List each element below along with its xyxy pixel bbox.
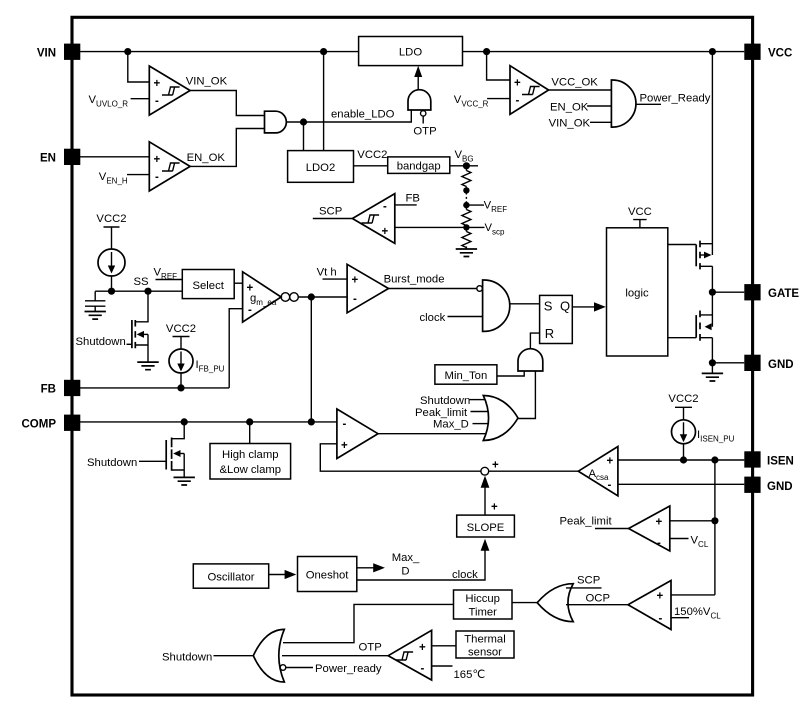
svg-text:+: +	[154, 154, 161, 166]
ground (Q4 source)	[174, 477, 195, 485]
transistor Q4 body arrow	[173, 450, 180, 457]
comparator U3 SCP	[352, 194, 394, 244]
svg-text:+: +	[154, 78, 161, 90]
svg-text:Max_: Max_	[392, 552, 420, 564]
wire U10 OCP output	[566, 604, 628, 606]
pin VCC	[744, 44, 760, 60]
comparator U11 OTP	[388, 630, 431, 680]
svg-text:S: S	[544, 299, 553, 314]
wire Power_ready to bubble	[286, 667, 313, 669]
wire U9 Peak_limit output	[595, 528, 629, 530]
comparator U2 EN_OK	[149, 142, 190, 191]
wire gm output node	[298, 296, 347, 298]
pin COMP	[64, 415, 80, 431]
svg-text:165℃: 165℃	[454, 669, 486, 681]
svg-text:OTP: OTP	[413, 126, 436, 138]
block bandgap	[388, 157, 450, 174]
wire FB rail	[80, 387, 229, 389]
svg-text:bandgap: bandgap	[397, 161, 441, 173]
transistor Q1 (gate driver high side) gate lead	[668, 244, 696, 246]
svg-text:LDO: LDO	[399, 47, 422, 59]
svg-text:sensor: sensor	[468, 647, 502, 659]
junction SS rail below I1	[108, 288, 115, 295]
svg-text:LDO2: LDO2	[306, 162, 336, 174]
wire VREF tap	[466, 204, 484, 206]
svg-text:OCP: OCP	[586, 593, 610, 605]
wire VVCC_R to U4 - input	[487, 98, 510, 100]
comparator U7 PWM	[337, 409, 378, 459]
summing node circle	[481, 467, 489, 475]
ground (divider)	[456, 249, 477, 257]
pin ISEN	[744, 451, 760, 467]
wire SCP to OR2	[566, 587, 602, 589]
wire Select to gm + input	[234, 282, 242, 284]
svg-text:+: +	[341, 440, 348, 452]
svg-text:clock: clock	[420, 312, 446, 324]
junction ISEN rail (limit comparators)	[711, 456, 718, 463]
wire Power_Ready output	[636, 103, 661, 105]
svg-text:Shutdown: Shutdown	[162, 652, 212, 664]
transistor Q1 drain lead	[700, 243, 712, 245]
bubble on NAND input	[477, 286, 483, 292]
junction COMP rail (clamp)	[246, 418, 253, 425]
svg-text:GND: GND	[768, 359, 794, 371]
svg-text:Max_D: Max_D	[433, 419, 469, 431]
comparator U1 VIN_OK	[149, 66, 190, 115]
svg-text:ISEN: ISEN	[767, 456, 794, 468]
block Min_Ton	[435, 365, 497, 384]
svg-text:High clamp: High clamp	[222, 449, 279, 461]
svg-text:clock: clock	[452, 569, 478, 581]
node Vscp junction	[463, 224, 469, 230]
comparator U4 VCC_OK	[510, 66, 549, 115]
svg-text:+: +	[514, 78, 521, 90]
svg-text:EN_OK: EN_OK	[550, 102, 589, 114]
svg-text:OTP: OTP	[359, 642, 382, 654]
wire Acsa output to summing node	[489, 470, 579, 472]
wire EN_OK to AND3	[587, 105, 611, 107]
svg-text:Select: Select	[192, 280, 224, 292]
wire ISEN rail	[618, 459, 744, 461]
block High clamp / Low clamp	[210, 444, 291, 480]
wire OR2 output to Hiccup Timer	[512, 602, 537, 604]
latch U6 SR	[540, 295, 573, 343]
wire Vscp tap	[466, 226, 484, 228]
transistor Q2 channel dashes	[699, 311, 701, 341]
pin VIN	[64, 44, 80, 60]
AND gate AND1	[265, 111, 287, 133]
svg-text:Burst_mode: Burst_mode	[384, 274, 445, 286]
resistor R1 (divider top)	[462, 166, 471, 191]
svg-text:FB: FB	[41, 384, 56, 396]
wire VIN rail	[80, 51, 359, 53]
wire U11 output to OR3	[282, 655, 388, 657]
junction sense vertical (peak limit)	[711, 517, 718, 524]
gm output circle pair	[281, 293, 290, 302]
wire VIN rail down to LDO2	[323, 52, 325, 151]
svg-text:VIN_OK: VIN_OK	[186, 75, 228, 87]
wire 150%VCL to U10 - input	[671, 617, 689, 619]
junction COMP rail (Q4)	[181, 418, 188, 425]
svg-text:EN: EN	[40, 153, 56, 165]
svg-text:VCC2: VCC2	[166, 323, 196, 335]
transistor Q3 channel dashes	[134, 320, 136, 348]
wire VCC to U4 + input	[487, 52, 510, 80]
svg-text:&Low clamp: &Low clamp	[220, 464, 282, 476]
wire FB rail up to gm - input	[229, 309, 242, 388]
hysteresis symbol U1	[162, 87, 180, 95]
wire Thermal sensor to U11 + input	[432, 645, 456, 647]
hysteresis symbol U4	[522, 87, 540, 95]
svg-text:FB: FB	[406, 193, 420, 205]
OR gate OR2 (fault)	[537, 584, 573, 622]
svg-text:-: -	[353, 294, 357, 306]
svg-text:+: +	[352, 275, 359, 287]
transistor Q3 (SS discharge) drain lead	[136, 291, 149, 322]
wire I1 to SS rail	[111, 276, 113, 291]
wire U7 output to OR1	[378, 433, 486, 435]
svg-text:SLOPE: SLOPE	[467, 522, 505, 534]
svg-text:-: -	[421, 663, 425, 675]
svg-text:COMP: COMP	[22, 419, 57, 431]
current source I2 IFB_PU	[169, 349, 193, 373]
junction COMP rail (gm node)	[308, 418, 315, 425]
junction below R1	[463, 187, 469, 193]
wire Shutdown to OR1	[470, 399, 486, 401]
bubble on OTP input of AND2	[421, 111, 426, 116]
svg-text:+: +	[656, 517, 663, 529]
node SS junction	[144, 288, 151, 295]
transistor Q2 body arrow	[705, 323, 712, 330]
wire AND5 output to R input	[530, 333, 539, 349]
svg-text:Thermal: Thermal	[464, 634, 505, 646]
junction VCC rail (to gate driver)	[709, 48, 716, 55]
transistor Q1 body arrow	[700, 254, 705, 256]
svg-text:+: +	[491, 502, 498, 514]
wire VCL to U9 - input	[670, 538, 689, 540]
AND gate AND3 (Power_Ready)	[611, 80, 636, 127]
svg-text:Shutdown: Shutdown	[87, 457, 137, 469]
wire Burst_mode to NAND bubble	[389, 288, 477, 290]
wire VIN to U1 + input	[128, 52, 150, 82]
wire Min_Ton to AND5	[497, 371, 524, 376]
node VREF junction	[463, 202, 469, 208]
wire EN pin to U2 + input	[80, 156, 149, 158]
transistor Q3 gate bar	[131, 320, 133, 348]
svg-text:Timer: Timer	[468, 607, 497, 619]
bubble on OR3 Power_ready input	[280, 665, 286, 671]
wire SLOPE arrow to summing node	[484, 487, 486, 515]
OR gate OR1 (reset sources)	[483, 396, 518, 441]
svg-text:-: -	[248, 305, 252, 317]
svg-text:VIN: VIN	[37, 48, 56, 60]
wire FB to U3 - input	[395, 204, 417, 206]
transistor Q3 source lead	[135, 334, 148, 362]
svg-text:SCP: SCP	[319, 206, 342, 218]
hysteresis symbol U2	[162, 163, 180, 171]
pin GATE	[744, 284, 760, 300]
svg-text:+: +	[607, 456, 614, 468]
wire dotted divider continuation	[465, 193, 467, 204]
comparator U5 Burst	[347, 264, 388, 313]
svg-text:-: -	[155, 96, 159, 108]
svg-text:VCC2: VCC2	[357, 149, 387, 161]
wire gm node down to COMP rail	[310, 297, 312, 422]
resistor R2 (divider middle)	[462, 205, 471, 227]
transistor Q4 (COMP discharge) drain lead	[172, 422, 184, 439]
transistor Q4 channel dashes	[171, 438, 173, 471]
wire SS rail	[95, 290, 182, 292]
wire AND2 output arrow to LDO	[417, 72, 419, 90]
svg-text:Oscillator: Oscillator	[207, 572, 254, 584]
pin GND (signal)	[744, 477, 760, 493]
svg-text:VCC: VCC	[768, 48, 792, 60]
hysteresis symbol U11	[396, 652, 414, 660]
svg-text:EN_OK: EN_OK	[187, 152, 226, 164]
transistor Q2 gate bar	[695, 315, 697, 338]
pin EN	[64, 149, 80, 165]
capacitor C1 (soft-start)	[85, 291, 105, 311]
current source I1 (soft-start)	[98, 249, 125, 276]
wire AND4 output to S input	[510, 303, 540, 305]
svg-text:+: +	[492, 460, 499, 472]
svg-text:logic: logic	[625, 288, 649, 300]
node VBG junction	[463, 162, 470, 169]
wire enable node down to LDO2	[303, 122, 305, 151]
svg-text:+: +	[657, 591, 664, 603]
wire Q output arrow to logic	[572, 306, 595, 308]
wire Shutdown to Q3 gate	[127, 343, 132, 345]
wire I3 to ISEN rail	[683, 444, 685, 460]
block SLOPE	[457, 515, 515, 537]
comparator U10 OCP	[628, 581, 671, 630]
wire bandgap to VBG node	[450, 165, 478, 167]
wire VCC rail down to Q1 drain	[711, 52, 713, 255]
svg-text:Peak_limit: Peak_limit	[560, 516, 613, 528]
ground (gate driver)	[711, 363, 713, 374]
svg-text:Power_ready: Power_ready	[315, 663, 382, 675]
amplifier U8 Acsa	[578, 447, 618, 496]
svg-text:Hiccup: Hiccup	[465, 593, 500, 605]
svg-text:-: -	[343, 419, 347, 431]
wire clamp stub	[249, 422, 251, 444]
error amplifier gm_ea	[243, 272, 282, 322]
svg-text:GND: GND	[767, 481, 793, 493]
wire clock to SLOPE arrow	[357, 551, 485, 581]
block Hiccup Timer	[454, 590, 513, 619]
wire GATE node to pin	[712, 291, 744, 293]
svg-text:Shutdown: Shutdown	[76, 336, 126, 348]
wire Peak_limit to OR1	[471, 411, 489, 413]
wire enable_LDO	[286, 110, 411, 122]
svg-text:Shutdown: Shutdown	[420, 395, 470, 407]
wire sense to U10 + input	[671, 594, 715, 596]
transistor Q2 (gate driver low side) drain lead	[700, 292, 712, 327]
wire sense to U9 + input	[670, 520, 715, 522]
junction gm output node	[308, 293, 315, 300]
junction on VIN rail (to LDO2)	[320, 48, 327, 55]
svg-text:Min_Ton: Min_Ton	[445, 370, 488, 382]
wire U3 SCP output	[313, 218, 353, 220]
block LDO2	[288, 151, 354, 183]
transistor Q1 gate bar	[695, 245, 697, 267]
wire OR1 output to AND5	[518, 371, 535, 419]
OR gate OR3 (shutdown)	[253, 629, 284, 682]
wire COMP rail	[80, 421, 337, 423]
supply bar VCC2 (soft-start)	[104, 227, 120, 249]
wire Hiccup Timer to OR3	[283, 604, 454, 642]
svg-text:VCC: VCC	[628, 206, 652, 218]
svg-text:-: -	[383, 201, 387, 213]
svg-text:R: R	[545, 326, 554, 341]
junction ISEN rail (pull-up)	[680, 456, 687, 463]
wire U2 output to AND1	[190, 129, 264, 167]
transistor Q1 source lead	[700, 266, 712, 292]
block Select	[182, 270, 234, 299]
svg-text:VIN_OK: VIN_OK	[549, 118, 591, 130]
svg-text:-: -	[155, 172, 159, 184]
wire clock to NAND	[448, 316, 483, 318]
node GATE junction	[709, 289, 716, 296]
svg-text:-: -	[659, 613, 663, 625]
current source I3 IISEN_PU	[672, 420, 696, 444]
resistor R3 (divider bottom)	[462, 227, 471, 249]
transistor Q2 gate lead	[668, 337, 696, 339]
wire Oneshot to Max_D arrow	[357, 567, 374, 569]
wire U7 + input from summing node	[320, 444, 480, 471]
hysteresis symbol U3	[362, 215, 380, 223]
wire GND node to pin	[712, 362, 744, 364]
wire GND rail	[618, 483, 744, 485]
ground (Q3 source)	[137, 362, 158, 370]
block Oneshot	[298, 557, 357, 592]
supply bar VCC2 (ISEN)	[675, 407, 692, 420]
wire U1 output to AND1	[190, 91, 264, 116]
svg-text:SCP: SCP	[577, 575, 600, 587]
pin FB	[64, 380, 80, 396]
transistor Q2 source lead	[700, 338, 712, 363]
svg-text:VCC2: VCC2	[96, 213, 126, 225]
svg-text:SS: SS	[134, 276, 150, 288]
AND gate AND4 (burst gating)	[483, 280, 510, 331]
junction on VIN rail (to UVLO comparator)	[124, 48, 131, 55]
supply bar VCC2 (FB pull-up)	[173, 337, 190, 350]
wire VREF into Select	[156, 279, 183, 281]
wire 165C to U11 - input	[432, 665, 453, 667]
wire VIN_OK to AND3	[590, 121, 611, 123]
svg-text:VCC2: VCC2	[668, 393, 698, 405]
comparator U9 Peak_limit	[629, 506, 670, 551]
svg-text:-: -	[516, 95, 520, 107]
wire Vscp to U3 + input	[395, 226, 467, 228]
svg-text:Peak_limit: Peak_limit	[415, 407, 468, 419]
svg-text:VCC_OK: VCC_OK	[551, 77, 598, 89]
junction VCC rail (to VCC_OK)	[483, 48, 490, 55]
transistor Q3 body arrow	[137, 331, 144, 338]
svg-text:GATE: GATE	[768, 288, 799, 300]
transistor Q4 gate bar	[165, 440, 167, 470]
wire VEN_H to U2 - input	[127, 174, 149, 176]
junction enable_LDO node	[300, 118, 307, 125]
AND gate AND2 (LDO enable, inverted OTP input)	[408, 90, 431, 110]
junction FB rail	[177, 384, 184, 391]
wire U4 output to AND3	[549, 89, 612, 91]
wire OTP stub	[422, 116, 424, 123]
block logic	[607, 228, 668, 356]
wire VCC rail	[463, 51, 745, 53]
wire VUVLO_R to U1 - input	[131, 98, 150, 100]
block LDO	[359, 37, 463, 66]
block Thermal sensor	[456, 631, 514, 658]
wire Oscillator to Oneshot arrow	[269, 574, 285, 576]
block Oscillator	[193, 564, 268, 588]
AND gate AND5 (reset)	[518, 349, 543, 371]
wire Vth to U5 + input	[323, 278, 348, 280]
supply bar VCC (logic)	[633, 220, 646, 228]
wire OR3 Shutdown output	[214, 655, 254, 657]
svg-text:Power_Ready: Power_Ready	[640, 93, 711, 105]
wire LDO2 to bandgap	[354, 165, 388, 167]
wire Shutdown to Q4 gate	[139, 460, 166, 462]
wire ISEN sense vertical	[714, 460, 716, 595]
svg-text:Vt h: Vt h	[317, 267, 337, 279]
svg-text:enable_LDO: enable_LDO	[331, 109, 395, 121]
node driver GND junction	[709, 359, 716, 366]
transistor Q4 source lead	[172, 454, 185, 478]
ground (soft-start cap)	[85, 312, 106, 320]
svg-text:+: +	[419, 642, 426, 654]
wire I2 to FB rail	[180, 373, 182, 388]
svg-text:+: +	[382, 226, 389, 238]
svg-text:Oneshot: Oneshot	[306, 570, 350, 582]
pin GND (gate driver)	[744, 355, 760, 371]
svg-text:D: D	[401, 566, 409, 578]
svg-text:-: -	[657, 538, 661, 550]
transistor Q1 channel dashes	[699, 241, 701, 270]
svg-text:Q: Q	[560, 299, 570, 314]
wire Max_D to OR1	[473, 423, 489, 425]
